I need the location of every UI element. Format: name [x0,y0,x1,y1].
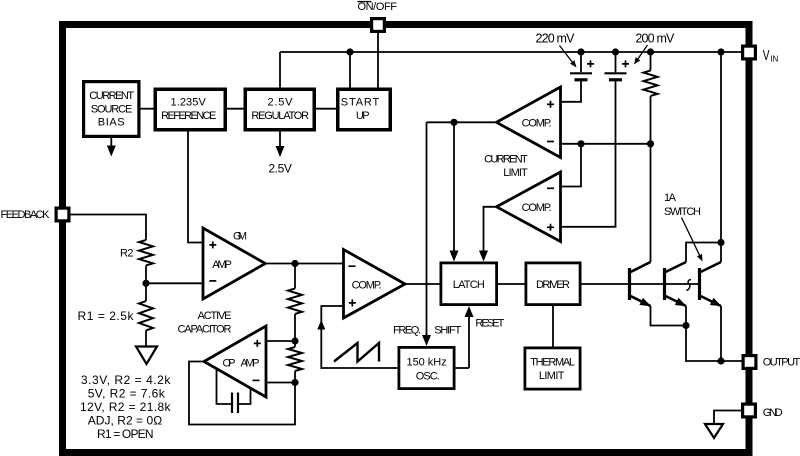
terminal FEEDBACK [56,208,69,221]
terminal ON/OFF [372,19,385,32]
wire reference to regulator [227,108,244,110]
wire regulator to startup [316,108,336,110]
wire Q1 emitter to emitter node [651,306,687,326]
wire R4 to node D [294,371,296,383]
node rail-VIN [717,48,724,55]
svg-text:CAPACITOR: CAPACITOR [178,324,232,336]
capacitor C1 loop wires [217,369,232,404]
wire R3 to node C [294,314,296,341]
resistor R1 [139,301,153,330]
wire node B to R3 chain [294,264,296,289]
svg-text:CURRENT: CURRENT [484,153,528,165]
node rail-R5 [647,48,654,55]
pointer arrow 200mV [638,45,648,59]
svg-text:COMP.: COMP. [522,118,552,130]
battery B2 200mV plates [605,72,627,74]
svg-text:SOURCE: SOURCE [91,103,133,115]
wire Q3 emitter to output node [720,306,722,361]
wire on/off to startup [377,33,379,88]
terminal OUTPUT [743,356,756,369]
svg-text:ON/OFF: ON/OFF [358,1,398,13]
wire comp2 output to latch [484,207,497,252]
node output [717,357,724,364]
wire Q2 collector to collector node [686,243,721,263]
svg-text:DRIVER: DRIVER [536,279,570,291]
wire minus bus branch to comp2 minus input [561,144,582,187]
node B gm output [291,260,298,267]
ground under GND pin [705,424,723,438]
comp1 plus sign [547,101,554,108]
svg-text:LIMIT: LIMIT [539,370,565,382]
node C op amp plus [291,337,298,344]
svg-text:R2: R2 [120,248,134,260]
op-amp U1 triangle [204,326,266,397]
svg-text:RESET: RESET [475,317,504,329]
wire node A to R1 [145,283,147,301]
capacitor C1 plates [231,393,233,414]
wire emitter node to output node [686,326,721,362]
battery B1 plus sign [587,60,594,67]
node minus bus sense [647,140,654,147]
comp2 minus sign [547,187,554,189]
svg-text:5V, R2 = 7.6k: 5V, R2 = 7.6k [88,387,166,401]
svg-text:LIMIT: LIMIT [503,167,528,179]
wire Q2 emitter to emitter node [685,306,687,326]
resistor R5 current sense [644,71,658,96]
svg-text:2.5V: 2.5V [268,162,292,176]
svg-text:REFERENCE: REFERENCE [161,110,216,122]
wire node C to R4 [294,341,296,347]
svg-text:IN: IN [770,54,778,64]
svg-text:12V, R2 = 21.8k: 12V, R2 = 21.8k [80,400,172,414]
svg-text:COMP.: COMP. [522,202,552,214]
overline on ON [358,1,372,3]
box 2.5V regulator [245,89,314,130]
wire GND pin to ground symbol [714,411,742,425]
wire minus bus node to Q1 collector [650,144,652,262]
wire latch to driver [498,283,525,285]
transistor Q3 [700,262,722,306]
pwm comp minus sign [349,265,356,267]
ground under R1 [136,347,157,365]
arrow down from bias box [110,138,112,146]
comp2 plus sign [547,224,554,231]
svg-text:FREQ.: FREQ. [393,324,421,336]
transistor Q1 [630,262,652,306]
pointer arrow 1A switch [682,218,700,256]
box thermal limit [525,348,580,389]
svg-text:ADJ, R2 = 0Ω: ADJ, R2 = 0Ω [88,414,163,428]
node emitter [682,322,689,329]
svg-text:R1 = OPEN: R1 = OPEN [97,427,154,441]
arrowhead osc ramp into pwm comp [317,320,325,330]
resistor R3 (gm load upper) [288,289,302,314]
wire gm amp output to pwm comp minus input [265,263,343,265]
op amp minus sign [253,379,260,381]
svg-text:GND: GND [763,407,783,419]
wire driver to switch bases [582,283,700,285]
node D op amp minus [291,379,298,386]
svg-text:200 mV: 200 mV [635,31,675,45]
svg-text:THERMAL: THERMAL [530,356,575,368]
wire rail to battery B2 [615,52,617,72]
node rail-startup [346,48,353,55]
wire bias to reference [141,108,154,110]
node A feedback divider [142,280,149,287]
wire regulator top [279,52,281,88]
resistor R2 [139,240,153,265]
node collector [717,239,724,246]
svg-text:BIAS: BIAS [98,117,125,129]
wire sense resistor to minus bus [650,96,652,144]
wire comparator minus bus [561,143,651,145]
pwm comp plus sign [349,299,356,306]
svg-text:V: V [763,48,770,64]
wire rail to sense resistor [650,52,652,71]
svg-text:1A: 1A [664,192,677,204]
arrowhead comp2 to latch [479,251,488,262]
arrowhead reset into latch [465,306,474,317]
comp1 minus sign [547,141,554,143]
svg-text:COMP.: COMP. [352,280,382,292]
pointer arrow 220mV [560,46,573,63]
wire comp1 branch to latch [453,122,455,252]
svg-text:R1 = 2.5k: R1 = 2.5k [78,309,135,323]
wire battery B2 to comp2 plus input [561,81,616,226]
svg-text:1.235V: 1.235V [171,97,207,109]
node rail-B1 [577,48,584,55]
wire node C to op amp plus input [266,340,295,342]
wire rail to battery B1 [580,52,582,72]
svg-text:GM: GM [233,231,247,243]
svg-text:REGULATOR: REGULATOR [251,110,309,122]
wire node A to gm amp minus input [146,282,203,284]
node minus bus comp2 branch [577,140,584,147]
svg-text:OSC.: OSC. [416,371,440,383]
arrow down from regulator 2.5V [279,132,281,147]
terminal VIN [743,46,756,59]
gm amp A1 triangle [203,228,265,299]
node comp1 output branch [450,119,457,126]
svg-text:START: START [341,97,380,109]
wire R1 to ground [145,331,147,347]
sawtooth waveform [334,343,379,362]
op amp plus sign [254,340,261,347]
box driver [526,263,580,305]
svg-text:150 kHz: 150 kHz [407,356,447,368]
gm amp minus sign [209,280,216,282]
resistor R4 (gm load lower) [288,347,302,371]
box latch [441,263,497,305]
wire VIN rail [280,51,741,53]
svg-text:3.3V, R2 = 4.2k: 3.3V, R2 = 4.2k [81,373,171,387]
transistor Q2 [665,262,687,306]
terminal GND [743,404,756,417]
wire Q3 collector to collector node [720,243,722,263]
svg-text:SWITCH: SWITCH [664,206,701,218]
wire output node to OUTPUT pin [721,360,742,362]
svg-text:2.5V: 2.5V [268,97,294,109]
svg-text:AMP: AMP [241,357,260,369]
wire freq shift down to osc [426,122,428,336]
wire reset arrow body [468,316,470,368]
wire comp1 plus input to battery B1 [561,81,582,101]
svg-text:CURRENT: CURRENT [89,90,134,102]
current limit comparator 1 triangle [497,87,561,158]
wire reference to gm amp plus input [188,132,203,243]
wire node D to op amp minus input [266,382,295,384]
battery B1 220mV plates [570,72,592,74]
wire pwm comp output to latch [405,283,440,285]
svg-text:OP: OP [223,357,236,369]
svg-text:UP: UP [356,110,370,122]
svg-text:SHIFT: SHIFT [434,324,461,336]
wire osc to reset [456,367,470,369]
box 1.235V reference [155,89,225,130]
svg-text:220 mV: 220 mV [536,31,576,45]
svg-text:AMP: AMP [212,259,232,271]
wire comp1 output bus [427,121,497,123]
node rail-B2 [612,48,619,55]
wire startup top from rail [349,52,351,88]
wire driver to thermal limit [552,306,554,347]
box 150 kHz osc [399,347,454,388]
box current source bias [84,82,139,137]
svg-text:FEEDBACK: FEEDBACK [1,209,51,221]
current limit comparator 2 triangle [497,172,561,242]
arrowhead comp1 to latch [450,251,459,262]
base squiggle between Q2 and Q3 [686,280,691,291]
box start up [338,89,391,130]
battery B2 plus sign [622,60,629,67]
wire node D down to op amp output loop [189,362,295,425]
arrowhead freq shift into osc [422,335,431,346]
gm amp plus sign [209,241,216,248]
wire rail to collector node [720,52,722,243]
pwm comparator triangle [344,250,406,319]
svg-text:ACTIVE: ACTIVE [198,310,232,322]
wire feedback to R2 [71,215,147,241]
svg-text:LATCH: LATCH [453,279,485,291]
svg-text:OUTPUT: OUTPUT [763,357,800,369]
wire R2 to node A [145,266,147,284]
wire osc output to pwm comp plus input [321,306,397,368]
